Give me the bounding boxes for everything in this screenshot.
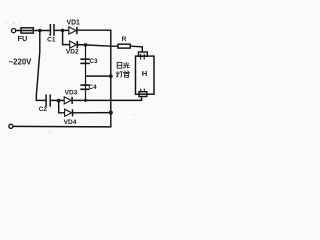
- svg-text:VD2: VD2: [66, 49, 79, 56]
- wire top rail VD1 to right corner: [77, 29, 112, 31]
- lamp top electrode pins: [140, 54, 142, 60]
- fuse FU: [21, 28, 33, 33]
- node E junction dot (C4 bottom on lamp line): [84, 99, 87, 102]
- lamp bottom electrode pins: [140, 89, 142, 93]
- wire input drop from node A to C2: [36, 31, 46, 101]
- svg-text:C1: C1: [47, 37, 56, 44]
- wire right vertical rail: [110, 30, 112, 127]
- wire bottom rail: [13, 125, 111, 128]
- wire VD3 to lamp bottom: [72, 96, 141, 100]
- svg-text:VD4: VD4: [64, 119, 77, 126]
- terminal bottom-left input: [9, 124, 13, 128]
- wire VD2 to rail (through C3 tap): [77, 45, 118, 47]
- terminal top-left input: [12, 29, 16, 33]
- label 日光灯管 (drawn strokes): [116, 62, 129, 77]
- svg-text:VD3: VD3: [65, 90, 78, 97]
- capacitor C4: [80, 84, 89, 86]
- node G junction dot (VD4 on rail): [109, 111, 113, 115]
- svg-text:R: R: [122, 36, 127, 43]
- wire C3/C4 ladder rail: [85, 45, 87, 101]
- diode VD1: [69, 27, 76, 34]
- diode VD2: [70, 41, 77, 48]
- diode VD4: [65, 109, 72, 116]
- wire C2 to VD3: [50, 99, 64, 101]
- svg-text:C3: C3: [89, 58, 98, 65]
- resistor R: [118, 44, 130, 48]
- wire C1 to VD1: [54, 29, 69, 31]
- diode VD3: [64, 97, 71, 104]
- char 灯: [116, 71, 122, 77]
- node D junction dot (midpoint on rail): [109, 74, 113, 78]
- faint scan speckle noise: [3, 6, 158, 134]
- wire R to lamp top: [130, 46, 142, 52]
- char 光: [123, 62, 129, 68]
- lamp bottom filament box: [139, 92, 147, 97]
- wire VD4 to rail: [73, 112, 111, 114]
- wire node F down to VD4: [59, 101, 65, 113]
- svg-text:H: H: [142, 69, 147, 78]
- svg-text:VD1: VD1: [66, 20, 80, 27]
- wire node B down to VD2: [63, 30, 70, 44]
- node A junction dot: [38, 29, 42, 33]
- node C junction dot (top of C3): [84, 43, 88, 47]
- node B junction dot: [61, 29, 65, 33]
- wire terminal to fuse and through to C1: [16, 30, 51, 32]
- capacitor C1: [49, 24, 51, 36]
- svg-text:C2: C2: [39, 106, 48, 113]
- char 管: [124, 71, 130, 77]
- capacitor C2: [45, 94, 47, 106]
- svg-text:C4: C4: [89, 84, 98, 91]
- svg-text:~220V: ~220V: [9, 57, 33, 66]
- wire C3/C4 midpoint tap to rail: [86, 75, 111, 77]
- lamp tube H body: [136, 56, 155, 94]
- node F junction dot: [57, 99, 61, 103]
- capacitor C3: [80, 58, 89, 60]
- char 日: [117, 62, 122, 68]
- svg-text:FU: FU: [17, 34, 27, 43]
- lamp top filament box: [139, 52, 148, 56]
